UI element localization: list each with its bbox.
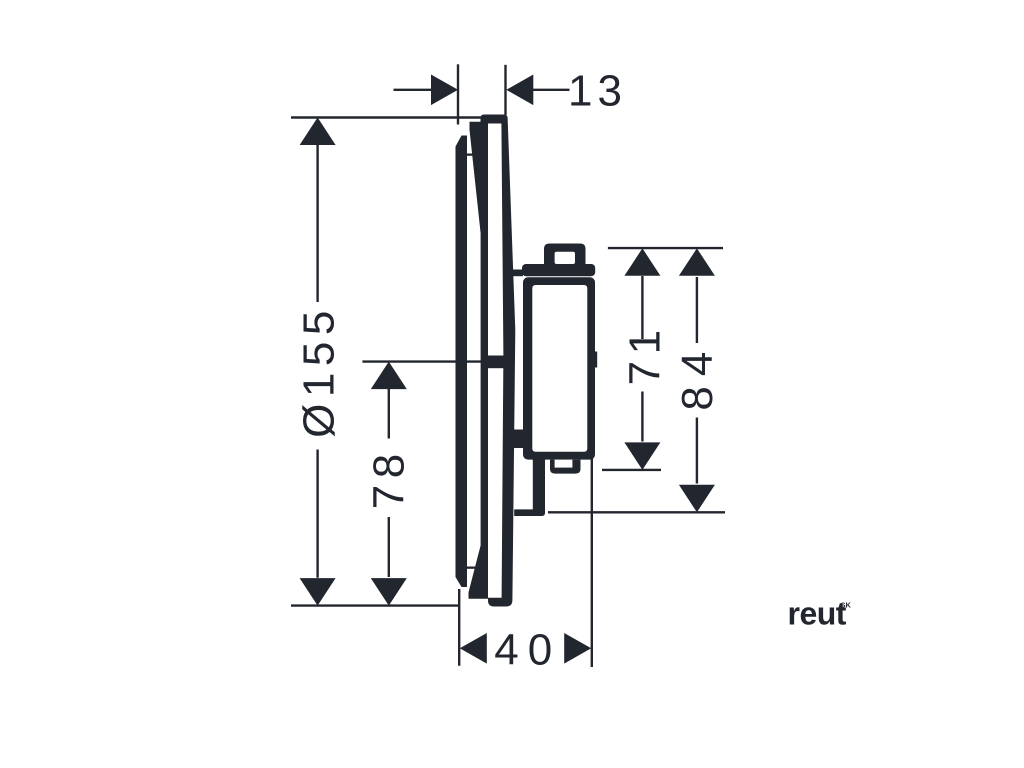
78 dimension line upper <box>388 389 390 439</box>
O155 dimension line lower <box>316 450 318 578</box>
housing side bump <box>594 352 597 368</box>
84 bottom extension line <box>548 511 725 513</box>
O155 dimension line upper <box>316 145 318 302</box>
housing top lip <box>522 264 595 276</box>
O155 arrow up <box>300 118 336 146</box>
centre tab (blob on sleeve) <box>487 356 505 369</box>
71 dimension line lower <box>641 392 643 442</box>
78 arrow down <box>371 578 407 606</box>
svg-text:13: 13 <box>568 66 627 115</box>
stub bottom <box>514 509 545 516</box>
O155/78 bottom extension line <box>291 604 460 606</box>
71/84 top extension line <box>608 247 723 249</box>
40 right extension line <box>591 454 593 667</box>
svg-text:78: 78 <box>365 447 414 509</box>
71 arrow up <box>624 248 660 275</box>
13 arrow left-pointing <box>506 75 533 106</box>
13 left extension line <box>457 64 459 124</box>
71 bottom extension line <box>602 469 661 471</box>
plate back edge (bar A) <box>456 136 468 588</box>
svg-text:71: 71 <box>621 323 670 385</box>
O155 arrow down <box>300 578 336 606</box>
svg-text:SK: SK <box>841 601 852 610</box>
84 arrow up <box>679 248 715 275</box>
40 arrow left-pointing <box>460 633 487 664</box>
housing top knob <box>544 244 586 266</box>
13 dimension line right <box>533 89 570 91</box>
O155 top extension line <box>291 116 481 118</box>
svg-text:40: 40 <box>494 626 561 675</box>
plate rim line bottom <box>466 567 479 569</box>
sleeve (outer ring, bar C with caps) <box>481 115 516 607</box>
78 arrow up <box>371 362 407 390</box>
housing body <box>523 277 595 459</box>
13 right extension line <box>504 65 506 115</box>
84 dimension line lower <box>696 418 698 484</box>
40 left extension line <box>458 589 460 666</box>
plate front face (bar B) <box>469 122 489 599</box>
40 arrow right-pointing <box>564 633 591 664</box>
bottom knob <box>550 460 581 474</box>
centre line (78 top extension) <box>362 360 489 362</box>
svg-text:84: 84 <box>673 342 722 411</box>
71 arrow down <box>624 442 660 470</box>
body inner white <box>532 285 587 452</box>
78 dimension line lower <box>388 517 390 577</box>
stub right wall <box>533 452 545 511</box>
knob inner white <box>555 252 575 264</box>
84 dimension line upper <box>696 277 698 343</box>
housing left step <box>514 430 524 449</box>
svg-text:reut: reut <box>788 596 847 632</box>
71 dimension line upper <box>641 276 643 339</box>
13 arrow right-pointing <box>431 75 458 106</box>
84 arrow down <box>679 485 715 513</box>
bottom knob inner white <box>555 460 573 468</box>
13 dimension line left <box>394 89 432 91</box>
plate rim line top <box>464 154 476 156</box>
svg-text:Ø155: Ø155 <box>295 304 344 438</box>
housing lip left flange <box>506 270 523 277</box>
